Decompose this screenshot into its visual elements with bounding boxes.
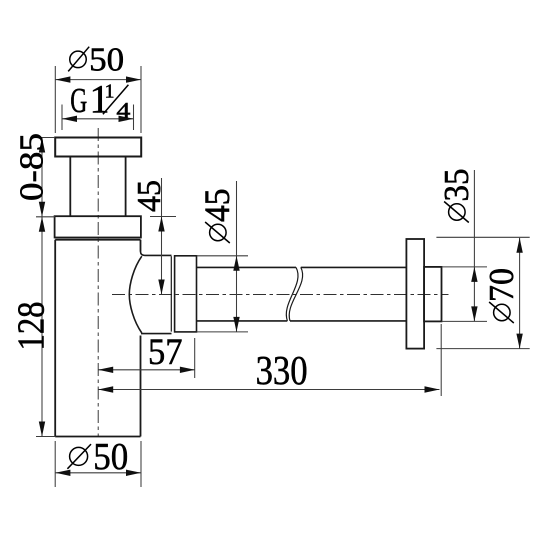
dim 330 line (98, 389, 439, 391)
svg-text:330: 330 (256, 347, 308, 393)
dim 45 arrows (158, 217, 164, 295)
elbow dome arc (129, 256, 142, 333)
dim d50 bottom extension lines (55, 441, 141, 487)
dim 45 label (131, 180, 168, 212)
dim G1 1/4 line (62, 118, 134, 120)
dim d70 extension lines (436, 237, 529, 348)
dim 0-85 arrows (39, 138, 45, 217)
dim d45 arrows (233, 256, 239, 332)
dim 45 extension tick (150, 216, 176, 218)
svg-text:35: 35 (437, 169, 476, 202)
svg-text:45: 45 (197, 189, 237, 223)
dim d50 top line (55, 79, 141, 81)
svg-text:1: 1 (105, 81, 115, 103)
dim 128 line (41, 217, 43, 437)
dim G1 1/4 arrows (62, 116, 134, 122)
dim d35 label (437, 169, 476, 223)
dim 0-85 extension ticks (36, 138, 55, 217)
dim d35 arrows (471, 267, 477, 322)
dim 57 arrows (98, 367, 195, 373)
svg-text:50: 50 (93, 436, 128, 478)
dim 128 extension tick bottom (36, 436, 55, 438)
dim d50 bottom arrows (55, 470, 141, 476)
dim d50 top extension lines (55, 66, 141, 133)
dim d70 arrows (516, 238, 522, 349)
svg-text:4: 4 (116, 97, 130, 122)
dim 128 label (11, 302, 53, 351)
horizontal centerline of outlet pipe (112, 294, 449, 296)
wall flange (406, 239, 424, 349)
svg-text:70: 70 (482, 268, 521, 302)
dim d45 extension lines (197, 256, 249, 332)
svg-text:128: 128 (11, 302, 53, 351)
dim 45 line (161, 178, 163, 295)
svg-text:50: 50 (89, 42, 124, 79)
dim 0-85 label (14, 133, 51, 201)
elbow outlet top (141, 252, 172, 256)
dim d35 extension lines (442, 267, 488, 322)
compression nut (175, 256, 197, 332)
dim 330 arrows (98, 386, 439, 392)
dim d70 label (482, 268, 521, 323)
slip nut on body (55, 216, 141, 237)
wall sleeve (424, 267, 441, 322)
dim d50 top label (68, 42, 124, 79)
dim d50 bottom label (67, 436, 128, 478)
dim G1 1/4 extension lines (62, 105, 134, 131)
dim d70 line (519, 238, 521, 349)
pipe break symbol (286, 267, 302, 321)
top flange of inlet (55, 138, 141, 157)
outlet pipe bottom line (197, 320, 407, 322)
elbow end ring (170, 256, 172, 331)
dim d35 line (473, 170, 475, 321)
dim 57 line (98, 369, 195, 371)
outlet pipe top line (197, 266, 407, 268)
inlet pipe sides (70, 157, 125, 217)
svg-text:57: 57 (148, 332, 183, 373)
svg-text:G: G (70, 81, 87, 120)
svg-text:45: 45 (131, 180, 168, 212)
svg-text:0-85: 0-85 (14, 133, 51, 201)
vertical centerline of trap body (97, 128, 99, 437)
dim d50 bottom line (55, 472, 141, 474)
dim G1 1/4 label (70, 77, 130, 123)
trap cup body (55, 240, 140, 437)
dim 0-85 line (41, 138, 43, 217)
dim 128 arrows (39, 217, 45, 437)
dim d45 label (197, 189, 237, 244)
dim 330 extension line (440, 324, 442, 396)
elbow outlet bottom (141, 333, 172, 335)
dim 57 extension line (194, 338, 196, 378)
dim d45 line (236, 181, 238, 332)
dim d50 top arrows (55, 76, 141, 82)
